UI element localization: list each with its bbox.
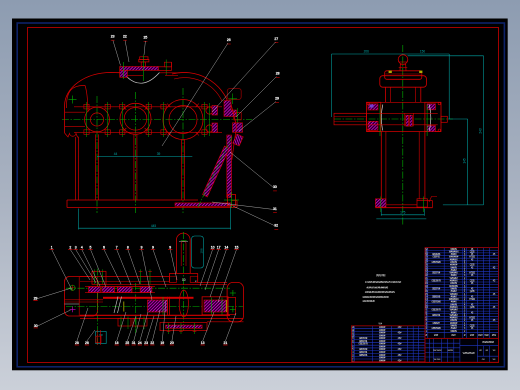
- right bearing roller arc: [429, 105, 431, 131]
- svg-text:GB297-84: GB297-84: [359, 341, 368, 343]
- right wall hatched: [227, 135, 232, 198]
- side base lines: [386, 204, 417, 206]
- flange joint lines: [74, 106, 222, 108]
- housing top-right arc outer: [172, 72, 230, 106]
- svg-text:#W# W#W: #W# W#W: [433, 350, 443, 352]
- plan gear B left: [148, 300, 168, 312]
- parts sub-table background: [351, 326, 425, 362]
- svg-text:1: 1: [51, 246, 53, 250]
- svg-text:2: 2: [69, 246, 71, 250]
- svg-text:W#: W#: [484, 333, 489, 337]
- svg-text:GB5780-86: GB5780-86: [431, 328, 441, 330]
- title block grid: [428, 338, 430, 362]
- dipstick rod hatched: [203, 146, 230, 197]
- breather knob: [140, 57, 148, 60]
- svg-text:19: 19: [160, 341, 164, 345]
- plan bottom leaders: [77, 308, 88, 341]
- left wall ribs: [75, 137, 77, 200]
- base flange: [67, 199, 198, 201]
- svg-text:W#W#W#: W#W#W#: [463, 351, 475, 355]
- svg-text:1.%##M#W#A#8#W#W%%#M.W#: 1.%##M#W#A#8#W#W%%#M.W#: [365, 280, 402, 284]
- housing top-right arc inner: [174, 78, 222, 101]
- svg-text:206: 206: [364, 49, 370, 53]
- plan drain lines: [96, 330, 98, 345]
- svg-text:39: 39: [157, 152, 161, 156]
- side dim 243: [483, 56, 485, 205]
- plan drain cyan box: [96, 332, 107, 344]
- right cap hatch top: [427, 104, 436, 110]
- cover right flange lines: [159, 66, 172, 68]
- svg-text:GB97-85: GB97-85: [432, 257, 440, 259]
- svg-text:175: 175: [400, 211, 406, 215]
- BOM table grid: [425, 247, 499, 249]
- title block border: [425, 338, 499, 362]
- dipstick centerline: [198, 137, 232, 207]
- front view centerline horizontal: [62, 119, 252, 121]
- svg-text:GB1096-79: GB1096-79: [358, 344, 368, 346]
- side lower body walls: [380, 132, 382, 199]
- right cap centerline: [426, 105, 428, 137]
- side top cap plate: [385, 71, 422, 80]
- side dim 145: [467, 119, 469, 205]
- cover inner line: [127, 74, 143, 76]
- side shaft through lines: [367, 112, 438, 114]
- cap bolt dots: [367, 102, 369, 104]
- dim line 445: [79, 227, 231, 229]
- svg-text:13: 13: [201, 341, 205, 345]
- svg-text:29: 29: [275, 97, 279, 101]
- BOM outer border: [425, 248, 499, 339]
- plan right flange marks: [230, 292, 236, 294]
- left cap centerline: [379, 105, 381, 137]
- svg-text:W#: W#: [470, 333, 475, 337]
- inspection opening arc white: [126, 73, 160, 84]
- svg-text:GB297-84: GB297-84: [432, 315, 441, 317]
- svg-text:150: 150: [420, 49, 426, 53]
- svg-text:GB893-86: GB893-86: [359, 355, 368, 357]
- side dim 175: [381, 214, 424, 216]
- plan top leaders: [52, 250, 72, 291]
- right cap hatch bottom: [427, 126, 436, 132]
- side upper body inner: [389, 87, 391, 102]
- svg-text:25: 25: [144, 36, 148, 40]
- svg-text:GB276-89: GB276-89: [359, 338, 368, 340]
- svg-text:29: 29: [34, 297, 38, 301]
- svg-text:28: 28: [75, 341, 79, 345]
- bore3 flange hatch upper: [212, 106, 218, 116]
- plan vertical centerlines: [97, 269, 99, 346]
- svg-text:14: 14: [225, 246, 229, 250]
- parts sub-table border: [351, 326, 425, 362]
- breather stem: [141, 62, 145, 67]
- drawing frame red: [28, 28, 499, 363]
- svg-text:9: 9: [169, 246, 171, 250]
- side left bearing cap: [367, 102, 381, 131]
- svg-text:6: 6: [103, 246, 105, 250]
- svg-text:W#: W#: [434, 333, 439, 337]
- plan left flange inner: [78, 277, 80, 317]
- rib shaft2: [133, 134, 135, 200]
- plan body top wall right: [198, 281, 227, 283]
- left shaft lines: [65, 111, 85, 113]
- cover left end: [120, 70, 128, 77]
- right wall slant: [231, 104, 237, 126]
- svg-text:30: 30: [273, 185, 277, 189]
- svg-text:GB1096-79: GB1096-79: [431, 310, 441, 312]
- side breather neck: [400, 64, 406, 71]
- front view centerline shaft3: [182, 88, 184, 213]
- plan slot inner: [180, 244, 182, 267]
- cap bolts yellow: [389, 71, 392, 73]
- surface finish mark: [429, 197, 437, 203]
- inspection cover plate hatched: [120, 67, 159, 71]
- oil lower fitting hatched: [233, 123, 243, 133]
- bottom wall hatched: [175, 203, 231, 206]
- svg-text:4: 4: [81, 246, 83, 250]
- side left shaft: [334, 113, 367, 125]
- plan shaft A centerline: [66, 287, 230, 289]
- bearing bore 2 outer: [120, 103, 151, 134]
- svg-text:4.#W#W#M#: 4.#W#W#M#: [362, 299, 375, 303]
- bore3 flange hatch lower: [212, 123, 218, 133]
- svg-text:GB297-84: GB297-84: [432, 273, 441, 275]
- front leader 23: [113, 40, 121, 66]
- front view centerline shaft2: [135, 92, 137, 213]
- breather centerline: [142, 55, 144, 81]
- plan yellow gear edge left: [123, 302, 125, 312]
- plan top bolts: [94, 269, 96, 284]
- front view centerline shaft1: [96, 96, 98, 213]
- svg-text:GB5783-86: GB5783-86: [431, 302, 441, 304]
- svg-text:17: 17: [217, 246, 221, 250]
- svg-text:5: 5: [90, 246, 92, 250]
- plan right flange: [227, 282, 243, 321]
- svg-text:GB297-84: GB297-84: [432, 288, 441, 290]
- svg-text:10: 10: [211, 246, 215, 250]
- svg-text:#W: #W: [451, 333, 456, 337]
- rib shaft3: [180, 140, 182, 201]
- svg-text:26: 26: [85, 341, 89, 345]
- breather cap: [139, 59, 149, 62]
- svg-text:23: 23: [144, 341, 148, 345]
- oil channel hatched: [224, 101, 237, 117]
- bearing cap bolt row: [84, 104, 89, 109]
- dim line 44-39: [97, 156, 192, 158]
- bore rim ticks: [195, 132, 199, 136]
- oil boss center mark: [229, 98, 238, 100]
- plan output boss: [169, 272, 197, 274]
- svg-text:#M#W%#W#M##W#8: #M#W%#W#M##W#8: [367, 285, 389, 289]
- plan gear B right cap: [228, 298, 236, 315]
- plan left flange: [65, 277, 98, 317]
- side bearing band split lines: [367, 101, 442, 103]
- plan bottom wall: [80, 314, 230, 316]
- side base left foot hatched: [375, 199, 386, 207]
- oil bolt: [234, 113, 241, 120]
- plan top bearing boss: [92, 271, 106, 284]
- parts sub-table grid: [351, 325, 425, 327]
- side right shaft stub: [441, 116, 447, 122]
- svg-text:21: 21: [224, 341, 228, 345]
- plan slot centerline: [183, 232, 185, 331]
- side view shaft centerline: [334, 118, 453, 120]
- svg-text:445: 445: [151, 224, 157, 228]
- bearing bore 1 inner: [90, 113, 103, 126]
- left cap hatch bottom: [368, 121, 378, 130]
- left cap hatch top: [368, 104, 378, 110]
- svg-text:15: 15: [235, 246, 239, 250]
- plan shaft B centerline: [66, 306, 243, 308]
- plan thick mid bar: [103, 297, 194, 299]
- svg-text:31: 31: [132, 341, 136, 345]
- left ear recess: [65, 133, 79, 137]
- bearing bore 2 inner: [124, 108, 147, 131]
- plan slot dim cyan: [181, 240, 187, 242]
- side breather knob: [398, 55, 408, 65]
- housing top right lines: [160, 72, 180, 74]
- svg-text:22: 22: [123, 34, 127, 38]
- svg-text:9: 9: [141, 246, 143, 250]
- right flange bolt: [164, 62, 171, 67]
- housing ear lobe inner arc: [66, 85, 88, 112]
- svg-text:GB276-89: GB276-89: [359, 349, 368, 351]
- svg-text:26: 26: [227, 38, 231, 42]
- svg-text:2.#W#M#WW##W#W#W#M#N: 2.#W#M#WW##W#W#W#M#N: [365, 290, 395, 294]
- dipstick handle: [233, 134, 243, 146]
- left ear center mark: [69, 99, 77, 101]
- oil level boss: [227, 89, 241, 100]
- plan left flange marks: [70, 285, 75, 290]
- BOM table background: [425, 248, 499, 339]
- svg-text:WN #M: WN #M: [376, 273, 386, 277]
- side upper body walls: [384, 87, 386, 102]
- svg-text:10: 10: [182, 278, 186, 282]
- side center key hatch: [406, 115, 409, 126]
- svg-text:106: 106: [200, 248, 204, 253]
- side body shoulder: [380, 76, 427, 88]
- svg-text:22: 22: [150, 341, 154, 345]
- left cap purple dot: [370, 105, 374, 108]
- svg-text:3: 3: [75, 246, 77, 250]
- svg-text:25: 25: [125, 341, 129, 345]
- side view vertical centerline: [402, 45, 404, 225]
- side dim 206-150: [332, 53, 450, 55]
- plan bottom right corner: [207, 321, 244, 323]
- bore3 flange bolt holes: [206, 107, 213, 114]
- plan output shaft ellipse: [179, 290, 188, 317]
- svg-text:20: 20: [170, 341, 174, 345]
- svg-text:9: 9: [152, 246, 154, 250]
- svg-text:#W: #W: [492, 333, 497, 337]
- side dim 190: [376, 218, 426, 220]
- rib shaft1: [95, 134, 97, 200]
- svg-text:GB893-86: GB893-86: [432, 296, 441, 298]
- svg-text:27: 27: [274, 37, 278, 41]
- svg-text:24: 24: [138, 341, 142, 345]
- svg-text:23: 23: [111, 34, 115, 38]
- side dim total height ext: [408, 55, 484, 57]
- plan body top wall: [80, 276, 169, 278]
- side base right foot: [417, 199, 427, 207]
- front leader 22: [125, 40, 129, 62]
- plan bottom cap hatch: [166, 325, 203, 328]
- svg-text:28: 28: [276, 72, 280, 76]
- svg-text:W# #W#: W# #W#: [434, 359, 442, 361]
- svg-text:7: 7: [116, 246, 118, 250]
- svg-text:GB1096-79: GB1096-79: [431, 281, 441, 283]
- svg-text:GB93-87: GB93-87: [432, 323, 440, 325]
- plan gear B right: [202, 297, 228, 315]
- svg-text:32: 32: [274, 224, 278, 228]
- bearing bore 3 inner: [169, 106, 197, 134]
- bearing bore 1 outer: [85, 107, 110, 132]
- title block background: [425, 338, 499, 362]
- side dim bottom connector: [443, 204, 484, 206]
- housing top-left outline: [65, 73, 120, 134]
- svg-text:243: 243: [478, 128, 482, 134]
- plan gear row A hatches: [89, 287, 101, 293]
- svg-text:8: 8: [127, 246, 129, 250]
- plan white gear marks: [114, 297, 118, 314]
- cover bolt centerline left: [122, 62, 124, 79]
- svg-text:#W: #W: [485, 350, 488, 352]
- plan row A bounds: [85, 286, 155, 288]
- base foot centerlines: [380, 197, 382, 213]
- svg-text:GB297-84: GB297-84: [359, 352, 368, 354]
- plan bottom combs: [118, 318, 131, 326]
- left bearing roller arc: [381, 105, 383, 131]
- svg-text:31: 31: [273, 207, 277, 211]
- svg-text:18: 18: [115, 341, 119, 345]
- plan bottom cap: [160, 323, 207, 331]
- svg-text:#W#W#W#: #W#W#W#: [482, 340, 494, 344]
- svg-text:145: 145: [462, 158, 466, 164]
- bearing bore 3 outer: [163, 100, 203, 140]
- svg-text:#W: #W: [478, 333, 483, 337]
- plan output shaft slot: [175, 240, 177, 273]
- oil drain plug: [228, 195, 236, 206]
- plan bottom cap bolts: [168, 323, 170, 334]
- svg-text:GB5783-86: GB5783-86: [431, 262, 441, 264]
- svg-text:30: 30: [34, 324, 38, 328]
- plan row A spacers: [114, 287, 117, 293]
- svg-text:44: 44: [114, 152, 118, 156]
- side right bearing cap: [425, 102, 441, 131]
